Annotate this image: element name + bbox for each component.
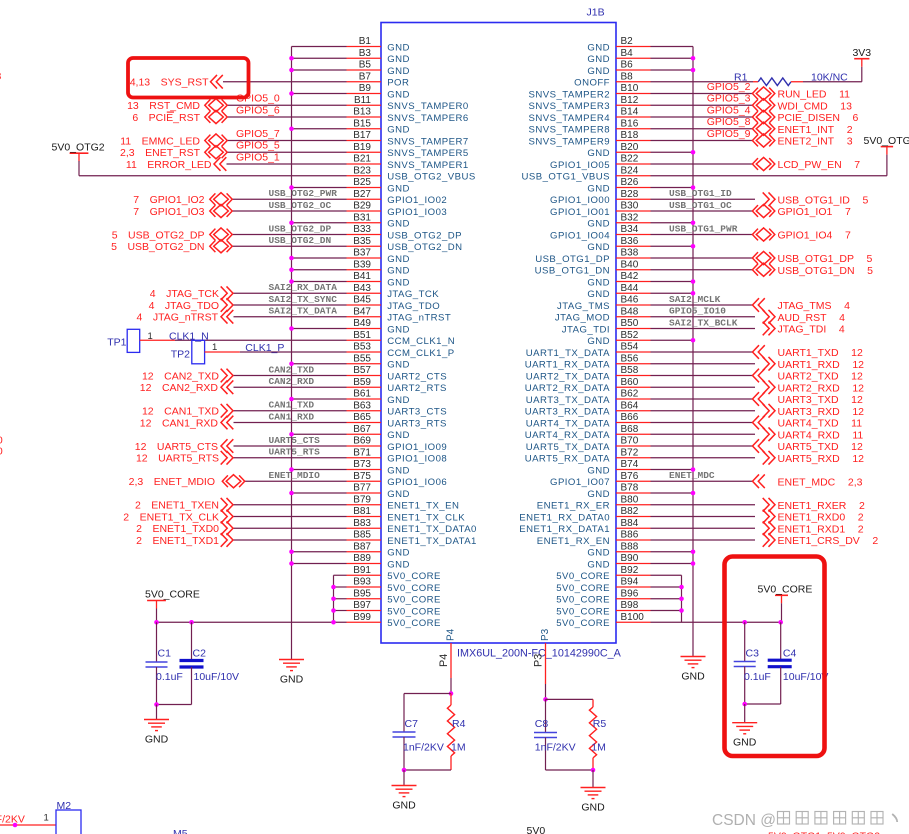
svg-text:JTAG_TMS 4: JTAG_TMS 4	[778, 300, 851, 312]
wire B54 to port UART1_TXD	[651, 351, 753, 353]
wire M2	[0, 824, 56, 826]
svg-text:B23: B23	[353, 165, 371, 176]
wire B16 to port ENET1_INT	[651, 128, 753, 130]
svg-text:B14: B14	[621, 107, 639, 118]
svg-text:2 ENET1_TXEN: 2 ENET1_TXEN	[135, 500, 219, 512]
port ENET1_RXD1	[763, 521, 775, 535]
junction B93	[331, 585, 336, 590]
svg-text:GND: GND	[587, 489, 610, 500]
pin B21	[347, 163, 382, 165]
port UART1_TXD	[753, 345, 765, 359]
svg-text:GPIO1_IO05: GPIO1_IO05	[550, 160, 610, 171]
svg-text:5V0_CORE: 5V0_CORE	[556, 583, 610, 594]
junction B74	[691, 467, 696, 472]
svg-text:ENET2_INT 3: ENET2_INT 3	[778, 136, 853, 148]
svg-text:5V0_CORE: 5V0_CORE	[556, 571, 610, 582]
port CAN2_RXD	[221, 380, 233, 394]
junction B97	[331, 608, 336, 613]
port CAN2_TXD	[221, 369, 233, 383]
pin B83	[347, 527, 382, 529]
svg-text:USB_OTG2_OC: USB_OTG2_OC	[269, 200, 332, 211]
pin B94	[616, 586, 651, 588]
pin B31	[347, 222, 382, 224]
svg-text:B40: B40	[621, 259, 639, 270]
pin B41	[347, 281, 382, 283]
svg-text:C3: C3	[746, 648, 760, 660]
svg-text:5V0_OTG2: 5V0_OTG2	[52, 142, 105, 154]
svg-text:GND: GND	[587, 242, 610, 253]
wire B78 to right bus	[651, 492, 694, 494]
svg-text:SNVS_TAMPER3: SNVS_TAMPER3	[529, 101, 610, 112]
pin B77	[347, 492, 382, 494]
ground C3C4	[732, 722, 757, 724]
svg-text:B94: B94	[621, 577, 639, 588]
wire B59 to port CAN2_RXD	[234, 386, 347, 388]
svg-text:SAI2_MCLK: SAI2_MCLK	[669, 294, 721, 305]
svg-text:B78: B78	[621, 483, 639, 494]
wire B75 to port ENET_MDIO	[245, 480, 347, 482]
wire B68 to port UART4_RXD	[651, 433, 756, 435]
svg-text:GND: GND	[387, 219, 410, 230]
pin B62	[616, 398, 651, 400]
junction M2 wire	[13, 823, 18, 828]
svg-text:M5: M5	[173, 828, 188, 834]
pin B9	[347, 93, 382, 95]
svg-text:B55: B55	[353, 353, 371, 364]
svg-text:UART2_TXD 12: UART2_TXD 12	[778, 371, 864, 383]
wire B49 to left bus	[292, 328, 347, 330]
svg-text:B33: B33	[353, 224, 371, 235]
svg-text:GPIO1_IO1 7: GPIO1_IO1 7	[778, 206, 851, 218]
svg-text:GND: GND	[392, 800, 416, 812]
svg-text:5V0_OTG1, 5V0_OTG2: 5V0_OTG1, 5V0_OTG2	[768, 831, 880, 834]
wire P4 bottom rail	[404, 769, 451, 771]
wire B32 to right bus	[651, 222, 694, 224]
svg-text:B86: B86	[621, 530, 639, 541]
pin B67	[347, 433, 382, 435]
wire to GND C3	[744, 704, 746, 723]
svg-text:B25: B25	[353, 177, 371, 188]
pin B15	[347, 128, 382, 130]
junction B9	[289, 91, 294, 96]
resistor R4	[450, 694, 452, 706]
port EMMC_LED	[205, 134, 227, 147]
svg-text:10uF/10V: 10uF/10V	[783, 671, 829, 683]
port ENET1_RXER	[763, 498, 775, 512]
wire B36 to right bus	[651, 245, 694, 247]
power 5V0_CORE right	[775, 594, 788, 596]
svg-text:GPIO5_8: GPIO5_8	[707, 116, 751, 128]
port CAN1_RXD	[221, 416, 233, 430]
svg-text:2,3 ENET_RST: 2,3 ENET_RST	[120, 147, 201, 159]
wire B56 to port UART1_RXD	[651, 363, 756, 365]
pin B46	[616, 304, 651, 306]
svg-text:USB_OTG2_DN: USB_OTG2_DN	[387, 242, 462, 253]
wire B80 to port ENET1_RXER	[651, 504, 756, 506]
wire B82 to port ENET1_RXD0	[651, 516, 756, 518]
port UART3_TXD	[753, 392, 765, 406]
wire B5 to left bus	[292, 69, 347, 71]
svg-text:C2: C2	[193, 648, 207, 660]
wire 5V0_CORE stem	[156, 609, 158, 623]
pin B60	[616, 386, 651, 388]
svg-text:GND: GND	[387, 277, 410, 288]
port UART4_TXD	[753, 416, 765, 430]
wire 5V0_OTG2 to B23	[78, 161, 80, 176]
wire B4 to right bus	[651, 57, 694, 59]
svg-text:GPIO1_IO08: GPIO1_IO08	[387, 454, 447, 465]
wire B58 to port UART2_TXD	[651, 375, 753, 377]
svg-text:B30: B30	[621, 201, 639, 212]
svg-text:3: 3	[0, 71, 2, 83]
svg-text:UART5_TX_DATA: UART5_TX_DATA	[526, 442, 610, 453]
svg-text:B2: B2	[621, 36, 634, 47]
svg-text:SNVS_TAMPER6: SNVS_TAMPER6	[387, 113, 468, 124]
svg-text:ONOFF: ONOFF	[574, 78, 610, 89]
svg-text:B60: B60	[621, 377, 639, 388]
svg-text:SNVS_TAMPER0: SNVS_TAMPER0	[387, 101, 468, 112]
svg-text:1nF/2KV: 1nF/2KV	[535, 742, 576, 754]
svg-text:POR: POR	[387, 78, 409, 89]
power 3V3	[854, 58, 869, 60]
pin B16	[616, 128, 651, 130]
ground left bus	[279, 659, 304, 661]
pin B81	[347, 516, 382, 518]
pin B49	[347, 328, 382, 330]
junction B15	[289, 126, 294, 131]
wire B88 to right bus	[651, 551, 694, 553]
port USB_OTG1_DN	[752, 263, 774, 276]
wire B48 to port AUD_RST	[651, 316, 756, 318]
svg-text:B69: B69	[353, 436, 371, 447]
pin B38	[616, 257, 651, 259]
pin B1	[347, 46, 382, 48]
wire B87 to left bus	[292, 551, 347, 553]
wire B39 to left bus	[292, 269, 347, 271]
pin B87	[347, 551, 382, 553]
pin B69	[347, 445, 382, 447]
junction B49	[289, 326, 294, 331]
svg-text:B70: B70	[621, 436, 639, 447]
svg-text:B12: B12	[621, 95, 639, 106]
part M2	[56, 810, 81, 834]
svg-text:ENET1_TX_DATA1: ENET1_TX_DATA1	[387, 536, 477, 547]
wire B77 to left bus	[292, 492, 347, 494]
pin B42	[616, 281, 651, 283]
pin B35	[347, 245, 382, 247]
svg-text:B9: B9	[359, 83, 372, 94]
svg-text:B98: B98	[621, 600, 639, 611]
svg-text:P4: P4	[446, 628, 457, 641]
wire B14 to port PCIE_DISEN	[651, 116, 753, 118]
svg-text:4,13 SYS_RST: 4,13 SYS_RST	[130, 77, 209, 89]
junction C1 top	[154, 620, 159, 625]
svg-text:JTAG_TDO: JTAG_TDO	[387, 301, 440, 312]
port PCIE_DISEN	[752, 110, 774, 123]
svg-text:B20: B20	[621, 142, 639, 153]
pin P4	[450, 643, 452, 678]
svg-text:USB_OTG2_DN: USB_OTG2_DN	[269, 235, 332, 246]
wire B6 to right bus	[651, 69, 694, 71]
wire B15 to left bus	[292, 128, 347, 130]
port WDI_CMD	[752, 99, 774, 112]
svg-text:J1B: J1B	[587, 7, 605, 19]
pin B76	[616, 480, 651, 482]
svg-text:B59: B59	[353, 377, 371, 388]
pin B96	[616, 598, 651, 600]
port ENET1_TXEN	[221, 498, 233, 512]
wire P3 top rail	[546, 698, 594, 700]
svg-text:TP2: TP2	[171, 349, 190, 361]
svg-text:B31: B31	[353, 212, 371, 223]
pin B78	[616, 492, 651, 494]
svg-text:C7: C7	[405, 718, 419, 730]
svg-text:B88: B88	[621, 541, 639, 552]
wire B74 to right bus	[651, 469, 694, 471]
svg-text:JTAG_TDI: JTAG_TDI	[562, 324, 610, 335]
svg-text:B32: B32	[621, 212, 639, 223]
svg-text:P3: P3	[533, 654, 545, 667]
pin B68	[616, 433, 651, 435]
wire B73 to left bus	[292, 469, 347, 471]
svg-text:GND: GND	[387, 324, 410, 335]
port USB_OTG2_DP	[210, 228, 232, 241]
wire to GND R5	[592, 770, 594, 788]
wire B28 to port USB_OTG1_ID	[651, 198, 756, 200]
wire B13 to port PCIE_RST	[227, 116, 346, 118]
junction C4 top	[778, 620, 783, 625]
svg-text:B10: B10	[621, 83, 639, 94]
svg-text:B93: B93	[353, 577, 371, 588]
wire P4 down	[450, 678, 452, 694]
wire B71 to port UART5_RTS	[233, 457, 347, 459]
svg-text:B79: B79	[353, 494, 371, 505]
svg-text:B62: B62	[621, 389, 639, 400]
svg-text:B53: B53	[353, 342, 371, 353]
junction B94	[679, 585, 684, 590]
svg-text:SAI2_TX_BCLK: SAI2_TX_BCLK	[669, 317, 738, 328]
pin B79	[347, 504, 382, 506]
svg-text:USB_OTG1_VBUS: USB_OTG1_VBUS	[522, 172, 611, 183]
wire B83 to port ENET1_TXD0	[233, 527, 347, 529]
svg-text:GND: GND	[387, 430, 410, 441]
wire B50 to port JTAG_TDI	[651, 328, 756, 330]
svg-text:B76: B76	[621, 471, 639, 482]
junction B39	[289, 267, 294, 272]
svg-text:5V0_CORE: 5V0_CORE	[387, 606, 441, 617]
pin B45	[347, 304, 382, 306]
svg-text:GPIO5_3: GPIO5_3	[707, 93, 751, 105]
junction B41	[289, 279, 294, 284]
svg-text:ENET_MDC 2,3: ENET_MDC 2,3	[778, 476, 863, 488]
svg-text:SNVS_TAMPER7: SNVS_TAMPER7	[387, 136, 468, 147]
wire C3 C4 bottom rail	[745, 703, 781, 705]
wire B35 to port USB_OTG2_DN	[232, 245, 346, 247]
wire B37 to left bus	[292, 257, 347, 259]
svg-text:13 RST_CMD: 13 RST_CMD	[127, 100, 200, 112]
port GPIO1_IO3	[210, 204, 232, 217]
junction B25	[289, 185, 294, 190]
pin B82	[616, 516, 651, 518]
wire B43 to port JTAG_TCK	[233, 292, 347, 294]
resistor R5	[592, 699, 594, 707]
svg-text:5V0_OTG: 5V0_OTG	[864, 135, 909, 147]
junction B6	[691, 68, 696, 73]
junction C2 top	[189, 620, 194, 625]
pin B53	[347, 351, 382, 353]
svg-text:USB_OTG2_DP: USB_OTG2_DP	[269, 223, 332, 234]
junction B90	[691, 561, 696, 566]
wire B93 5V0_CORE	[334, 586, 347, 588]
resistor R1	[753, 81, 758, 83]
svg-text:B16: B16	[621, 118, 639, 129]
wire B30 to port GPIO1_IO1	[651, 210, 753, 212]
pin B70	[616, 445, 651, 447]
svg-text:ENET1_RX_DATA0: ENET1_RX_DATA0	[519, 512, 610, 523]
svg-text:GPIO1_IO4 7: GPIO1_IO4 7	[778, 230, 851, 242]
wire B29 to port GPIO1_IO3	[232, 210, 346, 212]
pin B12	[616, 104, 651, 106]
svg-text:SAI2_TX_DATA: SAI2_TX_DATA	[269, 306, 338, 317]
wire B12 to port WDI_CMD	[651, 104, 753, 106]
svg-text:B22: B22	[621, 154, 639, 165]
svg-text:GND: GND	[587, 559, 610, 570]
svg-text:B68: B68	[621, 424, 639, 435]
testpoint TP1	[127, 329, 140, 352]
svg-text:UART3_RXD 12: UART3_RXD 12	[778, 406, 865, 418]
connector J1B body	[381, 23, 616, 644]
junction B32	[691, 220, 696, 225]
capacitor C7	[403, 694, 405, 733]
svg-text:B100: B100	[621, 612, 645, 623]
svg-text:B35: B35	[353, 236, 371, 247]
svg-text:B51: B51	[353, 330, 371, 341]
svg-text:GND: GND	[587, 148, 610, 159]
svg-text:B3: B3	[359, 48, 372, 59]
junction P3	[543, 697, 548, 702]
wire B33 to port USB_OTG2_DP	[232, 234, 346, 236]
pin B99	[347, 621, 382, 623]
pin B71	[347, 457, 382, 459]
svg-text:USB_OTG1_PWR: USB_OTG1_PWR	[669, 223, 738, 234]
wire B7 to port SYS_RST	[223, 81, 347, 83]
svg-text:ENET1_INT 2: ENET1_INT 2	[778, 124, 853, 136]
svg-text:4 JTAG_TCK: 4 JTAG_TCK	[150, 288, 219, 300]
port LCD_PW_EN	[752, 157, 774, 170]
svg-text:B64: B64	[621, 400, 639, 411]
svg-text:B85: B85	[353, 530, 371, 541]
svg-text:B44: B44	[621, 283, 639, 294]
junction B4	[691, 56, 696, 61]
junction C3 bottom	[742, 702, 747, 707]
svg-text:WDI_CMD 13: WDI_CMD 13	[778, 100, 853, 112]
svg-text:UART5_TXD 12: UART5_TXD 12	[778, 441, 864, 453]
pin B26	[616, 187, 651, 189]
pin B27	[347, 198, 382, 200]
wire B41 to left bus	[292, 281, 347, 283]
svg-text:1M: 1M	[451, 742, 466, 754]
svg-text:GPIO1_IO07: GPIO1_IO07	[550, 477, 610, 488]
pin B93	[347, 586, 382, 588]
port GPIO1_IO4	[752, 228, 774, 241]
svg-text:ENET1_RXD1 2: ENET1_RXD1 2	[778, 523, 864, 535]
pin B50	[616, 328, 651, 330]
svg-text:TP1: TP1	[107, 336, 126, 348]
junction 5V0_CORE rail right	[331, 620, 336, 625]
left GND bus wire	[291, 47, 293, 660]
svg-text:CSDN @: CSDN @	[712, 812, 776, 829]
port ENET1_TXD0	[221, 521, 233, 535]
junction B52	[691, 338, 696, 343]
pin B88	[616, 551, 651, 553]
svg-text:11 ERROR_LED: 11 ERROR_LED	[126, 159, 212, 171]
wire B79 to port ENET1_TXEN	[233, 504, 347, 506]
pin B91	[347, 574, 382, 576]
pin B25	[347, 187, 382, 189]
svg-text:B77: B77	[353, 483, 371, 494]
svg-text:B46: B46	[621, 295, 639, 306]
wire TP2 CLK1_P	[205, 351, 240, 353]
svg-text:UART1_RX_DATA: UART1_RX_DATA	[525, 360, 610, 371]
svg-text:UART4_TX_DATA: UART4_TX_DATA	[526, 418, 610, 429]
capacitor C3	[744, 622, 746, 661]
pin B34	[616, 234, 651, 236]
svg-text:1M: 1M	[591, 742, 606, 754]
highlight box C3C4	[725, 557, 825, 757]
wire B38 to port USB_OTG1_DP	[651, 257, 753, 259]
svg-text:ENET1_TX_CLK: ENET1_TX_CLK	[387, 512, 465, 523]
svg-text:B57: B57	[353, 365, 371, 376]
port ENET1_INT	[752, 122, 774, 135]
junction B87	[289, 549, 294, 554]
testpoint TP2	[192, 340, 205, 364]
svg-text:CAN2_RXD: CAN2_RXD	[269, 376, 315, 387]
svg-text:SAI2_RX_DATA: SAI2_RX_DATA	[269, 282, 338, 293]
svg-text:B8: B8	[621, 71, 634, 82]
pin B29	[347, 210, 382, 212]
svg-text:5V0_CORE: 5V0_CORE	[758, 584, 813, 596]
wire B17 to port EMMC_LED	[227, 140, 346, 142]
wire B100 5V0_CORE rail	[651, 621, 682, 623]
port AUD_RST	[763, 310, 775, 324]
junction B89	[289, 561, 294, 566]
pin B5	[347, 69, 382, 71]
wire B26 to right bus	[651, 187, 694, 189]
pin B20	[616, 151, 651, 153]
svg-text:B91: B91	[353, 565, 371, 576]
wire B99 5V0_CORE rail	[157, 621, 347, 623]
wire B66 to port UART4_TXD	[651, 422, 753, 424]
junction C7 bottom	[402, 768, 407, 773]
port SYS_RST	[211, 75, 223, 89]
svg-text:USB_OTG1_DN: USB_OTG1_DN	[535, 266, 610, 277]
svg-text:GND: GND	[387, 559, 410, 570]
svg-text:B19: B19	[353, 142, 371, 153]
svg-text:RUN_LED 11: RUN_LED 11	[778, 89, 851, 101]
svg-text:GND: GND	[387, 89, 410, 100]
svg-text:SNVS_TAMPER8: SNVS_TAMPER8	[529, 125, 610, 136]
svg-text:B83: B83	[353, 518, 371, 529]
svg-text:1nF/2KV: 1nF/2KV	[0, 814, 25, 826]
svg-text:B15: B15	[353, 118, 371, 129]
capacitor C2	[191, 622, 193, 660]
port JTAG_TMS	[753, 298, 765, 312]
port RST_CMD	[205, 99, 227, 112]
junction B55	[289, 361, 294, 366]
svg-text:GND: GND	[387, 183, 410, 194]
wire B85 to port ENET1_TXD1	[233, 539, 347, 541]
svg-text:B66: B66	[621, 412, 639, 423]
